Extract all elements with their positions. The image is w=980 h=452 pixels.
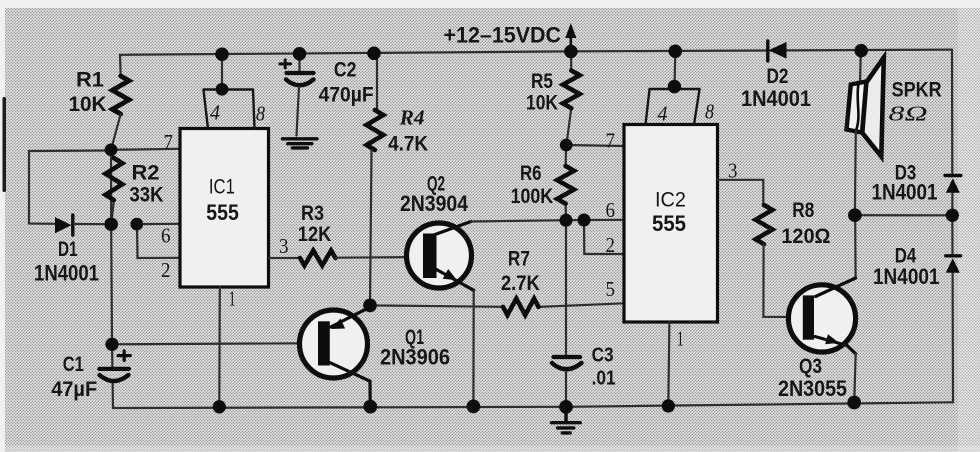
svg-text:4: 4: [658, 102, 668, 126]
svg-text:8: 8: [256, 102, 265, 126]
node dot R5/R6/pin7: [560, 139, 573, 152]
wire R1 top lead: [119, 55, 122, 76]
resistor R4: [367, 110, 384, 150]
node dot speaker/Q3 collector: [848, 208, 862, 222]
transistor Q2: [407, 222, 474, 291]
svg-text:2N3906: 2N3906: [380, 345, 450, 370]
svg-text:555: 555: [652, 211, 686, 236]
svg-text:.01: .01: [592, 368, 616, 390]
svg-text:10K: 10K: [526, 92, 558, 115]
node dot R1/R2/pin7: [105, 143, 118, 156]
svg-text:2.7K: 2.7K: [501, 272, 540, 295]
svg-text:R3: R3: [301, 202, 324, 225]
svg-text:IC2: IC2: [655, 189, 686, 212]
svg-text:4.7K: 4.7K: [388, 133, 428, 156]
IC2 body: [624, 125, 718, 323]
wire IC1 pin2 jog: [137, 224, 180, 258]
wire C1 node to Q1 base: [112, 343, 300, 344]
svg-text:100K: 100K: [511, 185, 553, 208]
wire R8 to Q3 base: [763, 244, 802, 317]
svg-text:C1: C1: [63, 353, 84, 376]
diode D4: [946, 256, 961, 273]
transistor Q3: [788, 278, 855, 354]
svg-text:IC1: IC1: [209, 176, 235, 199]
svg-text:8: 8: [705, 100, 714, 124]
node dot ground rail Q2 emitter: [467, 400, 481, 414]
ground symbol below rail: [552, 407, 581, 433]
wire IC2 pin2 jog: [584, 220, 624, 254]
node dot R4/Q1 emitter/R7: [363, 299, 377, 313]
wire IC1 bracket to rail: [221, 54, 223, 89]
node dot rail/C2: [293, 47, 307, 61]
wire R4 bottom lead: [370, 150, 372, 305]
wire Q2 collector to IC2 pin6: [471, 220, 624, 222]
svg-text:12K: 12K: [298, 223, 332, 246]
svg-text:7: 7: [606, 129, 616, 153]
svg-text:1: 1: [229, 287, 236, 311]
svg-text:1: 1: [677, 327, 684, 351]
svg-text:2: 2: [606, 233, 616, 257]
resistor R6: [564, 145, 567, 220]
svg-text:Q3: Q3: [799, 355, 822, 378]
node dot ground rail Q3 emitter: [847, 396, 861, 410]
diode D3: [945, 176, 961, 193]
wire R1 bottom lead: [111, 114, 121, 150]
wire R3 to Q2 base: [336, 256, 424, 259]
node dot rail/IC1 bracket: [215, 47, 229, 61]
svg-text:R7: R7: [508, 248, 530, 271]
wire IC2 pin7 line: [566, 145, 624, 146]
svg-text:SPKR: SPKR: [892, 79, 942, 102]
wire left box from node A to D1: [29, 151, 111, 224]
capacitor C1: [99, 351, 130, 381]
wire Q3 collector from speaker node: [816, 215, 856, 296]
node dot rail/IC2 bracket: [669, 44, 683, 58]
wire Q2 emitter to ground rail: [472, 290, 475, 406]
wire IC1 pin1 to ground rail: [218, 287, 221, 407]
svg-text:555: 555: [206, 200, 239, 225]
wire IC1 pin3 lead: [269, 257, 300, 259]
svg-text:R6: R6: [520, 162, 542, 185]
svg-text:10K: 10K: [69, 93, 107, 116]
wire IC2 bracket to rail: [673, 51, 676, 87]
svg-text:47µF: 47µF: [51, 378, 97, 401]
svg-text:4: 4: [210, 101, 220, 125]
svg-text:R1: R1: [76, 69, 104, 92]
svg-text:D1: D1: [58, 238, 78, 261]
svg-text:6: 6: [161, 224, 171, 248]
resistor R5: [566, 51, 571, 145]
svg-text:120Ω: 120Ω: [781, 225, 830, 248]
wire C1 left column: [111, 150, 113, 408]
diode D1: [55, 215, 73, 235]
wire Q3 emitter to ground rail: [854, 354, 856, 403]
resistor R1: [112, 76, 129, 114]
svg-text:C2: C2: [334, 59, 357, 82]
svg-text:7: 7: [164, 130, 174, 154]
node dot ground rail Q1 collector: [363, 400, 377, 414]
wire IC1 pin7 line: [111, 149, 180, 150]
svg-text:1N4001: 1N4001: [873, 264, 940, 289]
node dot D3/D4 junction: [946, 209, 959, 222]
svg-text:R4: R4: [399, 106, 425, 130]
svg-text:R8: R8: [792, 199, 814, 222]
wire C3 to ground rail: [565, 372, 567, 407]
IC1 body: [180, 129, 269, 288]
svg-text:8Ω: 8Ω: [889, 102, 928, 126]
transistor Q1: [300, 307, 372, 407]
node dot IC2 bracket: [668, 80, 682, 94]
svg-text:33K: 33K: [130, 184, 164, 207]
svg-text:2N3055: 2N3055: [778, 376, 847, 401]
svg-text:5: 5: [606, 277, 616, 301]
node dot D1/R2/pin6: [104, 217, 118, 231]
node dot ground rail IC1 pin1: [213, 400, 226, 413]
wire IC2 pin3 to R8: [718, 180, 764, 205]
capacitor C2: [280, 54, 314, 85]
resistor R7: [503, 299, 539, 315]
svg-text:C3: C3: [592, 345, 614, 367]
svg-text:2N3904: 2N3904: [400, 191, 469, 216]
IC2 pins 4/8 bracket: [646, 89, 700, 125]
wire IC2 pin5 line with R7: [370, 303, 624, 307]
wire C2 to ground: [297, 87, 300, 136]
wire top supply rail: [120, 50, 952, 55]
speaker SPKR: [847, 51, 884, 216]
node dot C1 top: [105, 338, 118, 351]
svg-text:470µF: 470µF: [319, 84, 374, 107]
svg-text:R2: R2: [132, 162, 160, 185]
svg-text:1N4001: 1N4001: [34, 261, 99, 286]
wire R6 node down to C3: [565, 220, 567, 355]
wire IC2 pin1 to ground rail: [668, 322, 669, 406]
node dot rail/R5: [564, 45, 578, 59]
svg-text:+12–15VDC: +12–15VDC: [444, 23, 562, 48]
svg-text:R5: R5: [531, 70, 553, 93]
node dot ground rail C3: [559, 400, 573, 414]
svg-text:1N4001: 1N4001: [741, 86, 811, 111]
node dot pin2 branch IC2: [577, 213, 590, 226]
wire right column (D3/D4 branch): [952, 50, 953, 403]
svg-text:2: 2: [161, 258, 171, 282]
page edge shadow streak: [3, 97, 7, 192]
ground symbol below C2: [283, 139, 318, 148]
node dot R6/C3/pin6: [559, 214, 572, 227]
diode D2 on rail: [768, 41, 787, 61]
svg-text:6: 6: [606, 198, 616, 222]
node dot IC1 bracket: [216, 83, 229, 96]
svg-text:3: 3: [279, 234, 289, 258]
supply arrow: [565, 23, 576, 51]
capacitor C3: [552, 357, 582, 369]
resistor R2: [111, 150, 114, 224]
node dot pin6/pin2 branch: [130, 218, 143, 231]
wire D1 cathode to node: [74, 223, 111, 225]
wire R4 top lead: [374, 53, 377, 110]
resistor R8: [756, 205, 773, 244]
wire speaker bottom to D3/D4 node: [855, 214, 952, 216]
node dot rail/speaker: [854, 44, 868, 58]
resistor R3: [300, 251, 335, 266]
svg-text:D2: D2: [767, 65, 789, 88]
wire bottom ground rail: [113, 402, 953, 408]
IC1 pins 4/8 bracket: [204, 90, 255, 129]
node dot rail/R4: [367, 47, 381, 61]
node dot ground rail IC2 pin1: [662, 399, 675, 412]
svg-text:1N4001: 1N4001: [872, 180, 938, 205]
wire IC1 pin6 line: [137, 223, 180, 226]
